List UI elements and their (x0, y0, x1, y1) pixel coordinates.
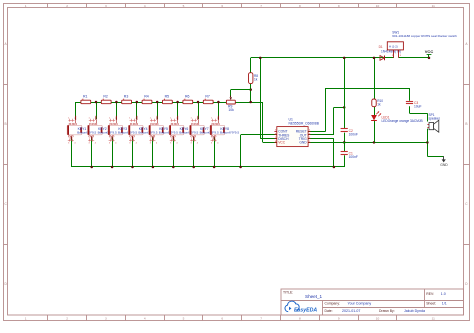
svg-text:Jakub Dynda: Jakub Dynda (404, 309, 425, 313)
svg-text:2021-01-07: 2021-01-07 (342, 309, 360, 313)
svg-text:EasyEDA: EasyEDA (294, 307, 317, 313)
svg-text:R2: R2 (103, 95, 108, 99)
svg-text:Button6*9*9.5: Button6*9*9.5 (179, 131, 198, 135)
svg-text:B: B (465, 122, 467, 126)
svg-text:8: 8 (299, 317, 301, 321)
svg-text:4: 4 (144, 317, 146, 321)
svg-text:R4: R4 (144, 95, 149, 99)
svg-text:9: 9 (338, 4, 340, 8)
svg-text:9: 9 (338, 317, 340, 321)
svg-text:10k: 10k (228, 108, 234, 112)
svg-text:1: 1 (25, 4, 27, 8)
svg-text:2: 2 (66, 317, 68, 321)
svg-text:7: 7 (260, 4, 262, 8)
svg-text:speaker: speaker (429, 117, 441, 121)
svg-text:D1: D1 (379, 45, 383, 49)
svg-text:2: 2 (66, 4, 68, 8)
svg-text:5: 5 (183, 4, 185, 8)
svg-text:1k: 1k (254, 78, 258, 82)
svg-text:LEDOrange orange 3ACMJB: LEDOrange orange 3ACMJB (382, 119, 423, 123)
svg-text:R3: R3 (124, 95, 129, 99)
svg-text:601-1011188 copper ROHS seal R: 601-1011188 copper ROHS seal Rocker swit… (392, 34, 457, 38)
svg-text:H (1-2): H (1-2) (389, 45, 398, 49)
svg-text:10: 10 (376, 317, 380, 321)
svg-text:Button6*9*9.5: Button6*9*9.5 (159, 131, 178, 135)
svg-text:Sheet_1: Sheet_1 (305, 294, 323, 299)
svg-text:8: 8 (299, 4, 301, 8)
svg-text:B: B (5, 122, 7, 126)
svg-text:GND: GND (299, 141, 307, 145)
svg-text:TITLE:: TITLE: (283, 291, 293, 295)
svg-text:R1: R1 (83, 95, 88, 99)
svg-text:Company:: Company: (325, 301, 341, 305)
svg-text:3: 3 (105, 317, 107, 321)
svg-text:R5: R5 (165, 95, 170, 99)
svg-text:100nF: 100nF (349, 133, 358, 137)
svg-text:1.0: 1.0 (441, 292, 446, 296)
svg-text:11: 11 (432, 4, 435, 8)
svg-text:10: 10 (376, 4, 380, 8)
svg-text:VCC: VCC (278, 141, 286, 145)
svg-text:Sheet:: Sheet: (426, 301, 436, 305)
svg-text:Date:: Date: (325, 309, 333, 313)
svg-text:Button6*9*9.5: Button6*9*9.5 (98, 131, 117, 135)
svg-text:VCC: VCC (425, 49, 434, 54)
svg-text:1k: 1k (377, 102, 381, 106)
svg-text:6: 6 (221, 4, 223, 8)
svg-text:3: 3 (105, 4, 107, 8)
svg-text:GND: GND (440, 163, 448, 167)
svg-text:11: 11 (432, 317, 435, 321)
svg-text:Button6*9*9.5: Button6*9*9.5 (118, 131, 137, 135)
svg-text:6: 6 (221, 317, 223, 321)
svg-text:4: 4 (144, 4, 146, 8)
svg-text:REV:: REV: (426, 292, 434, 296)
svg-text:100nF: 100nF (349, 155, 358, 159)
svg-text:Button6*9*9.5: Button6*9*9.5 (220, 131, 239, 135)
svg-text:Button6*9*9.5: Button6*9*9.5 (138, 131, 157, 135)
svg-text:R7: R7 (205, 95, 210, 99)
svg-text:NE555DR_C66608B: NE555DR_C66608B (289, 121, 320, 125)
svg-text:1: 1 (25, 317, 27, 321)
svg-text:5: 5 (183, 317, 185, 321)
svg-text:Button6*9*9.5: Button6*9*9.5 (77, 131, 96, 135)
svg-text:10uF: 10uF (414, 105, 422, 109)
svg-text:R6: R6 (185, 95, 190, 99)
svg-text:Button6*9*9.5: Button6*9*9.5 (200, 131, 219, 135)
svg-text:Drawn By:: Drawn By: (379, 309, 395, 313)
svg-text:Your Company: Your Company (348, 301, 372, 305)
svg-text:7: 7 (260, 317, 262, 321)
svg-text:1/1: 1/1 (442, 301, 447, 305)
